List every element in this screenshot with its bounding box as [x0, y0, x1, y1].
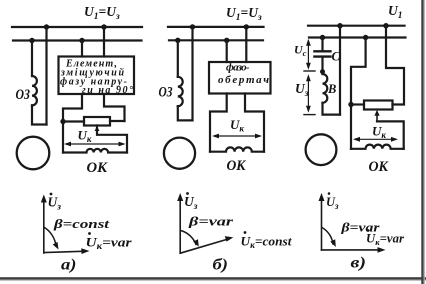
- winding OK (circuit b) with bottom wire: [210, 147, 264, 151]
- wire bus L2 to capacitor C: [321, 38, 323, 50]
- vector diagram v: angle beta arc: [322, 228, 336, 248]
- winding OK (circuit v) with bottom wire: [351, 145, 404, 149]
- wire bus L2 to element box top-left pin: [81, 41, 83, 57]
- label v) caption: [351, 255, 367, 272]
- vector diagram b: axis U3: [177, 193, 183, 253]
- rotor circle (circuit b): [164, 138, 195, 169]
- node U1=U3 label (circuit b): [226, 5, 262, 23]
- label b) caption: [213, 257, 229, 274]
- svg-text:Uк=var: Uк=var: [366, 232, 404, 248]
- wire bus L2 (circuit b): [169, 39, 263, 41]
- node junction dot bus L1 / element branch: [101, 24, 106, 29]
- svg-text:ОЗ: ОЗ: [159, 85, 173, 101]
- vector diagram a: angle beta arc: [45, 228, 59, 250]
- node junction dot bus L2 / OZ coil: [29, 38, 34, 43]
- svg-text:Uк: Uк: [230, 117, 244, 134]
- label Uc voltage arrow: [306, 39, 311, 70]
- svg-text:В: В: [327, 82, 336, 96]
- potentiometer R1 wiper mark: [95, 126, 100, 131]
- label Uk voltage arrow (circuit v): [353, 137, 398, 142]
- op box U1: phase shifting element (circuit a): [59, 57, 135, 95]
- label OK (circuit a): [87, 160, 108, 176]
- svg-text:U1=Uз: U1=Uз: [226, 5, 262, 23]
- label Uk (circuit a): [78, 128, 92, 145]
- wire element box bottom-right lead: [104, 94, 125, 121]
- node junction dot bus L1 / OZ branch: [44, 24, 49, 29]
- wire box bottom-right lead (b): [245, 94, 264, 152]
- wire OZ coil bottom to corner (b): [178, 106, 193, 120]
- rotor circle (circuit v): [306, 134, 337, 165]
- label inside phase rotator box: [218, 62, 269, 87]
- potentiometer R1 body (circuit a): [84, 117, 110, 126]
- label Uk (circuit v): [372, 124, 386, 141]
- svg-text:ОК: ОК: [87, 160, 108, 176]
- node junction dot pot left (v): [348, 102, 353, 107]
- label Uc: [294, 43, 307, 59]
- label Uk=const (diagram b): [241, 231, 292, 250]
- potentiometer R2 wiper arrow: [374, 110, 379, 122]
- label Uk=var (diagram v): [366, 229, 404, 247]
- label U3 dot (diagram b): [184, 192, 198, 212]
- node tick between Uc and U3 spans: [304, 70, 315, 72]
- svg-text:U1=Uз: U1=Uз: [84, 4, 120, 22]
- wire bus L1 (circuit a): [12, 26, 142, 28]
- capacitor C plates: [314, 51, 330, 56]
- wire bus L1 drop (circuit b): [191, 27, 193, 121]
- node junction dot bus L2 / box branch (b): [224, 38, 229, 43]
- svg-text:ОЗ: ОЗ: [16, 87, 31, 103]
- rotor circle (circuit a): [17, 137, 50, 170]
- node junction dot bus L2 / element branch: [79, 38, 84, 43]
- vector diagram a: axis U3: [41, 195, 47, 254]
- svg-text:обертач: обертач: [218, 74, 269, 86]
- label U3 dot (diagram v): [326, 192, 339, 211]
- label beta=var (diagram b): [188, 214, 235, 229]
- label beta=var (diagram v): [340, 220, 380, 235]
- node U1=U3 label (circuit a): [84, 4, 120, 22]
- wire bus L1 to element box top-right pin: [103, 27, 105, 57]
- node junction dot bus L2 / pot branch: [363, 35, 368, 40]
- wire OZ coil bottom to corner: [32, 105, 47, 124]
- label Uk (circuit b): [230, 117, 244, 134]
- svg-text:фазо-: фазо-: [226, 62, 250, 74]
- potentiometer R2 wiper tap wire: [377, 121, 404, 148]
- label a) caption: [61, 257, 77, 274]
- wire capacitor to winding B: [321, 57, 323, 74]
- wire box bottom-left lead (b): [210, 94, 227, 152]
- svg-text:Uк=var: Uк=var: [86, 235, 133, 252]
- wire to potentiometer left end: [63, 120, 84, 122]
- wire to potentiometer left end (v): [351, 103, 364, 105]
- svg-text:б): б): [213, 257, 229, 274]
- label OK (circuit b): [227, 158, 247, 174]
- vector diagram v: axis Uk: [322, 247, 386, 253]
- winding OZ coil (circuit b): [178, 77, 183, 106]
- svg-text:Uз: Uз: [326, 195, 339, 211]
- wire bus L2 (circuit a): [13, 39, 142, 41]
- svg-text:Uз: Uз: [48, 195, 62, 213]
- svg-text:ОК: ОК: [369, 159, 389, 175]
- label U3 voltage arrow: [306, 74, 311, 113]
- node junction dot bus L2 / capacitor: [320, 35, 325, 40]
- label U3 dot (diagram a): [48, 193, 62, 213]
- vector diagram b: angle beta arc: [181, 231, 199, 247]
- label B (winding): [327, 82, 336, 96]
- svg-text:Uк: Uк: [372, 124, 386, 141]
- wire bus L1 (circuit b): [168, 26, 264, 28]
- wire bus L2 (circuit v): [309, 36, 406, 38]
- wire bus L2 to box top-left pin (b): [226, 40, 228, 62]
- wire winding B bottom to corner: [323, 103, 341, 115]
- op box U2: phase rotator (circuit b): [209, 62, 271, 94]
- node junction dot bus L1 / pot branch: [383, 23, 388, 28]
- svg-text:Uк=const: Uк=const: [241, 234, 292, 251]
- wire element box bottom-left lead: [63, 94, 82, 153]
- vector diagram a: axis Uk: [44, 248, 90, 254]
- svg-text:Uз: Uз: [295, 81, 309, 99]
- label U3 (circuit v): [295, 81, 309, 99]
- wire bus L1 drop to pot right (circuit v): [386, 26, 404, 105]
- label inside element box: [60, 59, 133, 97]
- wire bus L1 to box top-right pin (b): [245, 27, 247, 62]
- svg-text:Uс: Uс: [294, 43, 307, 59]
- node tick at bottom of U3 arrow: [304, 114, 315, 116]
- svg-text:β=const: β=const: [53, 216, 110, 231]
- vector diagram v: axis U3: [319, 193, 325, 250]
- label Uk voltage arrow (circuit a): [64, 142, 126, 147]
- wire bus L1 drop to OZ bottom (circuit a): [45, 27, 47, 125]
- svg-text:Uз: Uз: [184, 194, 198, 212]
- winding OZ coil (circuit a): [32, 76, 37, 105]
- node junction dot bus L1 / box branch (b): [244, 24, 249, 29]
- label Uk voltage arrow (circuit b): [212, 134, 262, 139]
- svg-text:β=var: β=var: [188, 214, 235, 229]
- svg-text:в): в): [351, 255, 367, 272]
- wire to potentiometer right end: [110, 120, 125, 122]
- node junction dot bus L2 / OZ coil (b): [175, 38, 180, 43]
- node junction dot potentiometer left: [60, 119, 65, 124]
- wire bus L1 (circuit v): [308, 25, 405, 27]
- label OZ (circuit a): [16, 87, 31, 103]
- frame shadow right: [421, 0, 423, 284]
- wire bus L2 down to winding OZ (circuit b): [177, 40, 179, 77]
- label beta=const (diagram a): [53, 216, 110, 231]
- svg-text:U1: U1: [388, 3, 403, 21]
- svg-text:ги на 90°: ги на 90°: [82, 85, 133, 96]
- wire bus L1 drop (circuit v left loop): [339, 26, 341, 115]
- wire bus L2 drop to pot left (circuit v): [351, 38, 366, 149]
- vector diagram b: vector Uk slanted: [180, 236, 233, 253]
- node junction dot between C and B: [320, 69, 325, 74]
- wire from bus L2 down to winding OZ (circuit a): [31, 41, 33, 77]
- node junction dot bus L1 / OZ branch (b): [190, 24, 195, 29]
- label OK (circuit v): [369, 159, 389, 175]
- label OZ (circuit b): [159, 85, 173, 101]
- label C: [332, 50, 341, 64]
- svg-text:Uк: Uк: [78, 128, 92, 145]
- node junction dot bus L1 / C-B branch: [337, 23, 342, 28]
- winding OK (circuit a) with bottom wire: [63, 149, 127, 153]
- potentiometer R2 body (circuit v): [364, 101, 393, 110]
- potentiometer R1 wiper tap: [97, 126, 127, 153]
- svg-text:а): а): [61, 257, 77, 274]
- node U1 label (circuit v): [388, 3, 403, 21]
- svg-text:ОК: ОК: [227, 158, 247, 174]
- winding B coil (circuit v): [323, 74, 328, 103]
- frame shadow bottom: [0, 277, 426, 279]
- label Uk=var (diagram a): [86, 232, 133, 251]
